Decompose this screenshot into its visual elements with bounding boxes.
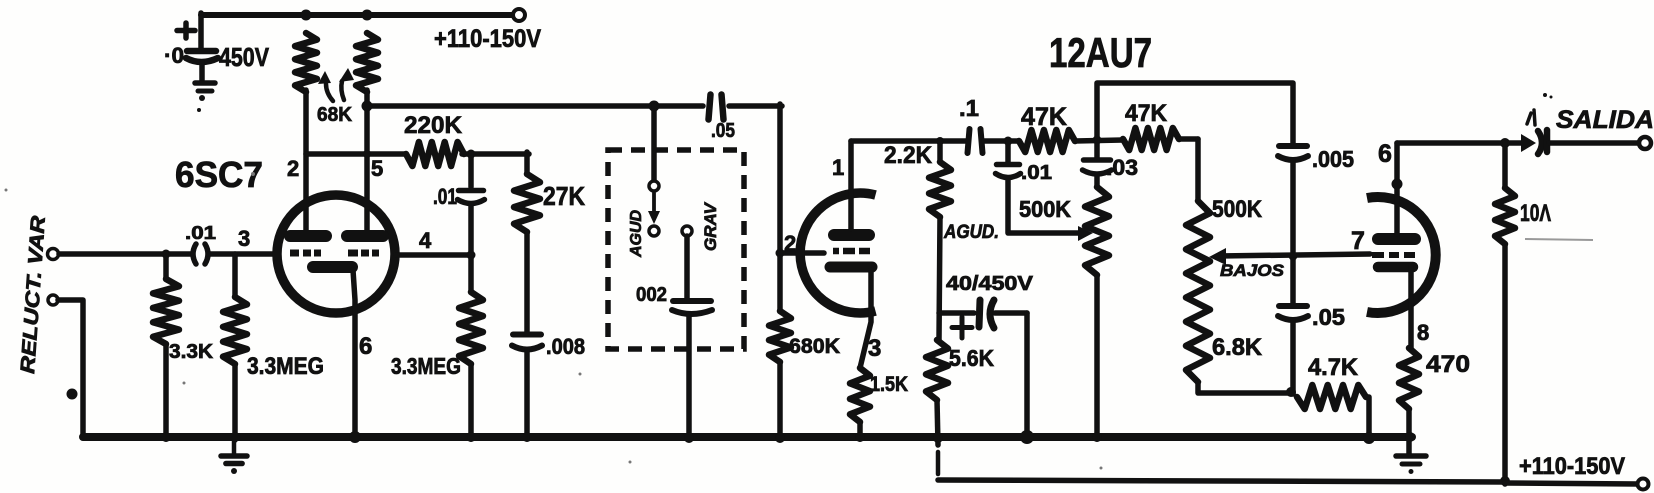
svg-text:500K: 500K [1019,196,1071,222]
svg-text:680K: 680K [789,335,840,358]
svg-text:6.8K: 6.8K [1212,334,1263,361]
svg-text:27K: 27K [543,181,585,211]
svg-text:47K: 47K [1125,100,1168,127]
svg-text:8: 8 [1417,320,1429,345]
svg-text:1: 1 [832,155,844,180]
svg-text:2: 2 [784,231,796,256]
svg-text:500K: 500K [1212,196,1263,223]
svg-text:.1: .1 [959,95,979,121]
svg-text:5.6K: 5.6K [949,345,994,371]
svg-text:.01: .01 [1021,162,1052,184]
svg-text:4: 4 [419,228,432,253]
svg-text:2: 2 [287,156,299,181]
svg-text:.05: .05 [1312,304,1345,330]
svg-text:3.3MEG: 3.3MEG [391,353,461,379]
svg-text:12AU7: 12AU7 [1049,29,1152,76]
svg-text:68K: 68K [317,104,353,126]
svg-text:.005: .005 [1312,146,1354,172]
svg-text:AGUD: AGUD [628,209,645,258]
svg-text:1.5K: 1.5K [870,373,908,396]
svg-text:6: 6 [1378,140,1392,168]
svg-text:47K: 47K [1021,103,1067,131]
svg-text:·0: ·0 [164,43,184,68]
svg-text:SALIDA: SALIDA [1556,106,1654,134]
svg-text:+110-150V: +110-150V [434,25,541,53]
svg-text:3: 3 [238,226,250,251]
svg-text:.01: .01 [433,184,457,209]
svg-text:.05: .05 [711,120,735,142]
svg-text:.008: .008 [546,334,585,359]
svg-text:220K: 220K [404,112,463,139]
svg-text:10Λ: 10Λ [1520,200,1551,227]
svg-text:40/450V: 40/450V [946,273,1034,295]
svg-text:470: 470 [1426,351,1470,378]
svg-text:3: 3 [868,335,881,362]
svg-text:.01: .01 [185,223,216,243]
svg-text:2.2K: 2.2K [884,142,933,169]
svg-text:4.7K: 4.7K [1308,354,1359,381]
svg-text:AGUD.: AGUD. [943,222,999,243]
svg-text:7: 7 [1351,227,1365,255]
svg-text:6: 6 [359,333,372,360]
svg-text:GRAV: GRAV [701,201,720,251]
svg-text:3.3MEG: 3.3MEG [247,353,324,380]
svg-text:6SC7: 6SC7 [175,154,263,195]
svg-text:+110-150V: +110-150V [1519,453,1625,480]
svg-text:.03: .03 [1106,155,1138,180]
svg-text:450V: 450V [219,42,270,72]
svg-text:3.3K: 3.3K [169,341,214,363]
svg-text:BAJOS: BAJOS [1220,261,1285,280]
svg-text:002: 002 [636,284,667,306]
svg-text:5: 5 [371,156,383,181]
